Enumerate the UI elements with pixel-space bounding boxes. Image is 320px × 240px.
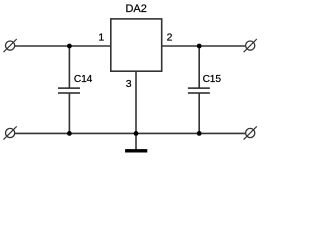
terminal (input, top left) — [4, 39, 17, 52]
label C15 — [203, 74, 222, 85]
label C14 — [74, 74, 93, 85]
capacitor C15 — [188, 46, 210, 133]
terminal (output, top right) — [244, 39, 257, 52]
label DA2 — [125, 3, 146, 15]
terminal (common, bottom left) — [4, 126, 17, 139]
pin 2 number label — [167, 31, 173, 43]
terminal (common, bottom right) — [244, 126, 257, 139]
junction node (top, C15 / output rail) — [197, 44, 202, 49]
svg-text:DA2: DA2 — [125, 3, 146, 15]
svg-text:1: 1 — [98, 32, 104, 44]
wire: input terminal to pin 1 — [15, 45, 111, 47]
pin 1 number label — [98, 32, 104, 44]
svg-text:C14: C14 — [74, 74, 93, 85]
wire: pin 3 down to ground — [135, 71, 137, 149]
svg-text:3: 3 — [126, 78, 132, 90]
wire: pin 2 to output terminal — [162, 45, 246, 47]
capacitor C14 — [58, 46, 80, 133]
junction node (bottom, C14 / common rail) — [67, 131, 72, 136]
ground symbol — [125, 149, 147, 152]
svg-text:2: 2 — [167, 31, 173, 43]
junction node (bottom, C15 / common rail) — [197, 131, 202, 136]
junction node (top, C14 / input rail) — [67, 44, 72, 49]
voltage regulator DA2 (body) — [111, 19, 162, 71]
wire: bottom common rail — [15, 132, 245, 134]
pin 3 number label — [126, 78, 132, 90]
svg-text:C15: C15 — [203, 74, 222, 85]
junction node (bottom, pin 3 / common rail) — [134, 131, 139, 136]
